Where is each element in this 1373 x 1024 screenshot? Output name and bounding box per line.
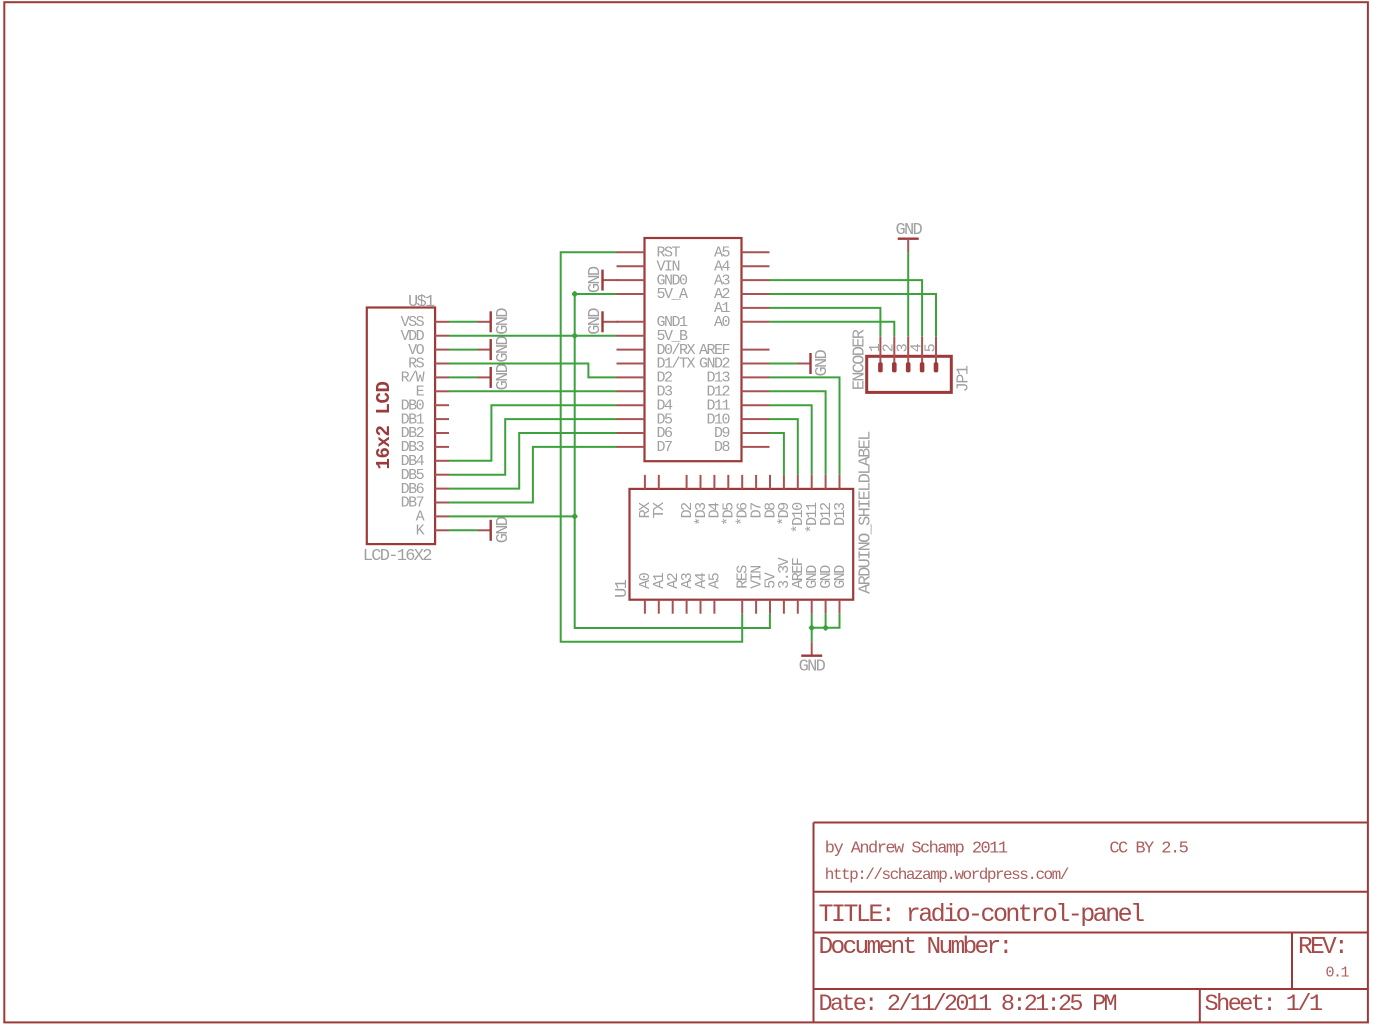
- svg-text:http://schazamp.wordpress.com/: http://schazamp.wordpress.com/: [825, 866, 1069, 884]
- svg-text:0.1: 0.1: [1326, 964, 1350, 981]
- shield top pin TX: [651, 475, 668, 518]
- pin A3 (right): [714, 272, 770, 289]
- shield bottom pin GND: [818, 565, 835, 614]
- Document Number field: [819, 934, 1011, 961]
- wire D9 main to shield: [770, 433, 784, 475]
- wire LCD A (backlight anode) to 5V net: [449, 515, 575, 517]
- pin D12 (right): [706, 384, 769, 401]
- ground symbol (LCD side): [449, 363, 513, 390]
- pin A0 (right): [714, 314, 770, 331]
- wire VDD / 5V_B: [449, 335, 617, 337]
- wire A3 to encoder pin 4: [770, 280, 923, 337]
- Arduino main symbol box: [645, 238, 742, 461]
- pin D13 (right): [706, 370, 769, 387]
- junction at 5V_A: [571, 291, 578, 298]
- ground symbol at GND0: [586, 266, 619, 293]
- svg-text:A5: A5: [707, 572, 724, 589]
- wire DB4 to D4: [449, 405, 617, 461]
- shield bottom pin GND: [832, 565, 849, 614]
- Date field: [819, 991, 1117, 1018]
- pin A5 (right): [714, 245, 770, 262]
- U$1 name label: [408, 293, 435, 312]
- shield bottom pin VIN: [748, 566, 765, 614]
- pin A2 (right): [714, 286, 770, 303]
- LCD pin VDD: [401, 328, 449, 345]
- ground symbol at GND2: [770, 349, 832, 376]
- LCD pin DB1: [401, 411, 449, 428]
- wire 5V net: 5V_A down to shield 5V: [575, 294, 770, 628]
- license note text: [1109, 840, 1188, 859]
- wire E to D3: [449, 390, 617, 392]
- pin D5 (left): [617, 411, 674, 428]
- ENCODER value label: [850, 329, 869, 390]
- pin D11 (right): [706, 397, 769, 414]
- encoder pin 1: [867, 337, 884, 373]
- pin GND0 (left): [617, 272, 689, 289]
- shield bottom pin A5: [707, 572, 724, 613]
- LCD pin RS: [408, 356, 449, 373]
- shield bottom pin RES: [735, 565, 752, 614]
- pin D0/RX (left): [617, 342, 696, 359]
- svg-text:GND: GND: [494, 363, 513, 390]
- LCD pin DB7: [401, 495, 449, 512]
- encoder header JP1 (ENCODER): [867, 356, 952, 392]
- wire RST net: main RST to shield RES: [561, 252, 743, 642]
- shield bottom pin A2: [665, 573, 682, 613]
- pin D2 (left): [617, 370, 673, 387]
- REV field: [1298, 934, 1346, 961]
- pin A1 (right): [714, 300, 770, 317]
- junction at LCD A: [571, 513, 578, 520]
- encoder pin 4: [909, 337, 926, 373]
- junction at shield GND 1: [808, 624, 815, 631]
- 16x2 LCD value label: [373, 381, 395, 469]
- wire A1 to encoder pin 1: [770, 308, 881, 337]
- svg-text:D7: D7: [657, 439, 673, 456]
- shield bottom pin A4: [693, 572, 710, 613]
- ground symbol above encoder: [895, 221, 922, 253]
- encoder pin 3: [895, 337, 912, 373]
- wire A2 to encoder pin 5: [770, 294, 937, 337]
- wire D10 main to shield: [770, 419, 798, 475]
- shield top pin *D11: [804, 475, 821, 533]
- svg-text:GND: GND: [586, 308, 605, 335]
- shield bottom pin 5V: [762, 572, 779, 613]
- shield bottom pin A0: [637, 572, 654, 613]
- url note text: [825, 866, 1069, 884]
- ground symbol (LCD side): [449, 336, 513, 363]
- pin GND1 (left): [617, 314, 689, 331]
- junction at 5V_B/VDD: [571, 332, 578, 339]
- wire DB6 to D6: [449, 433, 617, 489]
- author note text: [825, 840, 1008, 859]
- svg-text:Document Number:: Document Number:: [819, 934, 1011, 961]
- wire GND to encoder pin 3: [907, 252, 909, 336]
- LCD pin K: [416, 523, 449, 540]
- svg-text:U$1: U$1: [408, 293, 435, 312]
- pin VIN (left): [617, 258, 680, 275]
- svg-text:ARDUINO_SHIELDLABEL: ARDUINO_SHIELDLABEL: [856, 431, 875, 594]
- pin D3 (left): [617, 384, 674, 401]
- shield top pin *D10: [790, 475, 807, 533]
- ground symbol at GND1: [586, 308, 619, 335]
- shield top pin *D9: [776, 475, 793, 526]
- pin D4 (left): [617, 397, 674, 414]
- svg-text:GND: GND: [586, 266, 605, 293]
- svg-text:JP1: JP1: [954, 365, 973, 392]
- LCD module U$1 (16x2 LCD, LCD-16X2): [367, 308, 435, 545]
- svg-text:U1: U1: [613, 579, 632, 598]
- shield top pin *D6: [735, 475, 752, 526]
- Arduino shield label U1 (ARDUINO_SHIELDLABEL): [630, 489, 854, 600]
- shield bottom pin GND: [804, 565, 821, 614]
- wire D11 main to shield: [770, 405, 812, 475]
- shield bottom pin 3.3V: [776, 557, 793, 613]
- svg-text:GND: GND: [494, 308, 513, 335]
- svg-text:16x2 LCD: 16x2 LCD: [373, 381, 395, 469]
- LCD-16X2 value label: [363, 547, 432, 566]
- LCD pin DB0: [401, 397, 449, 414]
- ground symbol below shield: [799, 642, 826, 676]
- junction at shield GND 2: [822, 624, 829, 631]
- svg-text:D8: D8: [714, 439, 731, 456]
- svg-text:K: K: [416, 523, 425, 540]
- pin D9 (right): [714, 425, 770, 442]
- svg-text:GND: GND: [494, 336, 513, 363]
- pin D8 (right): [714, 439, 770, 456]
- svg-text:TX: TX: [651, 502, 668, 519]
- pin RST (left): [617, 245, 681, 262]
- shield top pin RX: [637, 475, 654, 518]
- svg-text:GND: GND: [832, 565, 849, 589]
- pin A4 (right): [714, 258, 770, 275]
- ground symbol (LCD side): [449, 516, 513, 543]
- LCD pin DB5: [401, 467, 449, 484]
- wire DB7 to D7: [449, 447, 617, 503]
- LCD pin VO: [408, 342, 449, 359]
- JP1 name label: [954, 365, 973, 392]
- wire A0 to encoder pin 2: [770, 322, 895, 337]
- LCD pin A: [416, 509, 449, 526]
- svg-text:by Andrew Schamp 2011: by Andrew Schamp 2011: [825, 840, 1008, 859]
- wire D13 main to shield: [770, 377, 840, 475]
- LCD pin DB2: [401, 425, 449, 442]
- svg-text:TITLE: radio-control-panel: TITLE: radio-control-panel: [819, 900, 1145, 929]
- TITLE field: [819, 900, 1145, 929]
- shield top pin D7: [748, 475, 765, 518]
- svg-text:GND: GND: [895, 221, 922, 240]
- shield bottom pin A1: [651, 572, 668, 613]
- svg-text:D13: D13: [832, 502, 849, 526]
- pin 5V_B (left): [617, 328, 689, 345]
- shield top pin D2: [679, 475, 696, 518]
- shield top pin *D5: [721, 475, 738, 526]
- svg-text:LCD-16X2: LCD-16X2: [363, 547, 432, 566]
- LCD pin R/W: [401, 370, 449, 387]
- LCD pin VSS: [401, 314, 449, 331]
- pin GND2 (right): [699, 356, 770, 373]
- svg-text:REV:: REV:: [1298, 934, 1346, 961]
- svg-text:CC BY 2.5: CC BY 2.5: [1109, 840, 1188, 859]
- shield top pin D8: [762, 475, 779, 518]
- pin 5V_A (left): [617, 286, 689, 303]
- wire DB5 to D5: [449, 419, 617, 475]
- pin AREF (right): [699, 342, 770, 359]
- svg-text:GND: GND: [813, 349, 832, 376]
- shield top pin D13: [832, 475, 849, 526]
- svg-text:GND: GND: [494, 516, 513, 543]
- shield bottom pin A3: [679, 572, 696, 613]
- pin D10 (right): [706, 411, 769, 428]
- svg-text:Sheet: 1/1: Sheet: 1/1: [1205, 991, 1322, 1018]
- revision value 0.1: [1326, 964, 1350, 981]
- encoder pin 2: [881, 337, 898, 373]
- encoder pin 5: [922, 337, 939, 373]
- svg-text:5V_A: 5V_A: [657, 286, 689, 303]
- shield bottom pin AREF: [790, 558, 807, 613]
- LCD pin E: [416, 384, 449, 401]
- Sheet field: [1205, 991, 1322, 1018]
- shield top pin D4: [707, 475, 724, 518]
- U1 name label: [613, 579, 632, 598]
- svg-text:ENCODER: ENCODER: [850, 329, 869, 390]
- pin D1/TX (left): [617, 356, 696, 373]
- wire shield GND pins tie: [812, 614, 840, 643]
- svg-text:GND: GND: [799, 658, 826, 677]
- pin D7 (left): [617, 439, 673, 456]
- ground symbol (LCD side): [449, 308, 513, 335]
- svg-text:A0: A0: [714, 314, 731, 331]
- title block frame: [814, 823, 1369, 1023]
- LCD pin DB6: [401, 481, 449, 498]
- shield top pin *D3: [693, 475, 710, 526]
- ARDUINO_SHIELDLABEL value label: [856, 431, 875, 594]
- svg-text:Date: 2/11/2011 8:21:25 PM: Date: 2/11/2011 8:21:25 PM: [819, 991, 1117, 1018]
- LCD pin DB4: [401, 453, 449, 470]
- shield top pin D12: [818, 475, 835, 526]
- pin D6 (left): [617, 425, 674, 442]
- wire RS to D2: [449, 364, 617, 378]
- wire D12 main to shield: [770, 391, 826, 475]
- LCD pin DB3: [401, 439, 449, 456]
